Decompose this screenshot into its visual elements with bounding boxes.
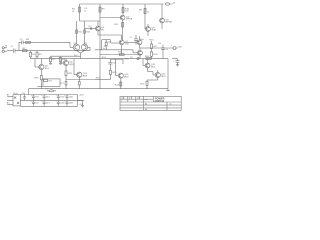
- fuse F2: [47, 90, 56, 92]
- svg-text:2SC: 2SC: [125, 43, 130, 45]
- svg-text:4m7: 4m7: [46, 96, 50, 98]
- capacitor C12: [32, 95, 35, 101]
- resistor R7: [50, 56, 52, 63]
- wire psu zero rail: [20, 99, 84, 101]
- junction terminal: [137, 58, 139, 60]
- resistor R1 shunt: [30, 51, 32, 59]
- wire Q16 collector: [157, 70, 159, 72]
- svg-text:file: file: [145, 109, 147, 111]
- wire Q6 collector: [40, 59, 42, 65]
- transistor Q7 VAS: [119, 40, 124, 45]
- label Q4: [126, 16, 133, 20]
- wire output node line: [151, 47, 172, 49]
- wire Q8 emitter: [65, 66, 67, 71]
- diode D2: [90, 27, 92, 29]
- resistor R6: [26, 41, 31, 43]
- label Q15: [151, 64, 156, 68]
- connector input jack upper: [2, 47, 7, 49]
- wire Q14 base feed: [116, 59, 119, 75]
- label Q5: [101, 27, 105, 31]
- title block v line 3: [143, 96, 145, 110]
- wire Q16 emitter: [157, 78, 159, 80]
- wire Q5 emitter: [97, 31, 99, 35]
- svg-text:R17: R17: [153, 46, 158, 48]
- svg-text:+: +: [171, 45, 173, 47]
- label R8: [139, 10, 150, 14]
- capacitor C14: [43, 95, 46, 101]
- title text: [154, 97, 164, 103]
- svg-text:1k: 1k: [147, 12, 150, 14]
- wire Q14 emitter: [120, 78, 122, 89]
- transistor Q14 output: [118, 73, 123, 78]
- capacitor C11 bypass: [172, 59, 180, 65]
- capacitor C16: [57, 95, 60, 101]
- resistor R2: [23, 50, 28, 52]
- wire VAS collector: [121, 35, 123, 40]
- wire Q8 collector: [65, 59, 67, 61]
- wire input line: [7, 50, 13, 52]
- capacitor C6 loop: [102, 40, 111, 50]
- label R5: [84, 8, 105, 13]
- title block v line 4: [152, 96, 154, 102]
- wire psu feed up: [28, 89, 30, 95]
- label C14: [41, 95, 49, 98]
- svg-text:220: 220: [125, 11, 129, 13]
- svg-text:R6: R6: [26, 39, 30, 41]
- ground tail: [49, 62, 52, 65]
- label C16: [56, 95, 65, 98]
- label C13: [31, 101, 39, 104]
- transistor Q9: [146, 27, 151, 32]
- resistor R3 shunt: [36, 51, 38, 59]
- wire Q10t rail drop: [161, 4, 163, 18]
- svg-text:R27: R27: [141, 83, 146, 85]
- ground tail 2: [59, 62, 62, 65]
- wire psu minus rail: [20, 105, 77, 107]
- ground C11: [176, 65, 179, 67]
- capacitor C20 snubber: [23, 95, 26, 101]
- resistor R27: [146, 80, 158, 89]
- wire psu plus rail: [20, 94, 77, 96]
- capacitor C2: [22, 41, 24, 45]
- svg-text:R19: R19: [35, 77, 40, 79]
- wire left box left vertical: [79, 4, 81, 21]
- label Q7: [125, 41, 130, 45]
- wire feedback line: [19, 41, 21, 43]
- wire feedback branch vertical: [18, 42, 20, 50]
- wire feedback bus: [95, 50, 138, 53]
- svg-text:BD9: BD9: [161, 76, 166, 78]
- svg-text:100n: 100n: [69, 96, 73, 98]
- capacitor C7: [134, 35, 138, 45]
- resistor R19: [40, 75, 42, 88]
- capacitor C18: [66, 95, 69, 101]
- svg-text:R12: R12: [78, 32, 83, 34]
- label C19: [64, 101, 73, 104]
- label C9: [158, 43, 169, 51]
- transistor Q4: [120, 15, 125, 20]
- title block v line 1: [127, 96, 129, 102]
- svg-text:BD9: BD9: [124, 76, 129, 78]
- svg-text:R23: R23: [115, 84, 120, 86]
- transistor Q16 output: [155, 72, 160, 77]
- svg-text:F2: F2: [46, 89, 48, 91]
- transistor Q12 driver: [138, 50, 143, 55]
- svg-text:100n: 100n: [69, 102, 73, 104]
- wire Q16 base feed: [148, 72, 156, 76]
- title block h line 2: [120, 101, 181, 103]
- wire Q4 emitter chain: [122, 20, 124, 40]
- bridge rectifier D5: [13, 95, 20, 106]
- svg-text:4m7: 4m7: [35, 96, 39, 98]
- wire bottom negative rail: [29, 88, 168, 90]
- transistor Q5: [96, 26, 101, 31]
- fuse F1 terminal: [165, 3, 171, 5]
- title block cell ticks: [124, 96, 140, 99]
- wire left box bottom: [80, 20, 101, 22]
- wire VAS top link: [98, 34, 122, 36]
- resistor R21 emitter drop: [65, 80, 67, 89]
- svg-text:RL1: RL1: [49, 80, 54, 82]
- svg-text:C9: C9: [158, 43, 162, 45]
- svg-text:MPSA: MPSA: [126, 18, 133, 21]
- svg-text:1k: 1k: [72, 11, 75, 13]
- resistor R22b emitter drop: [78, 80, 80, 89]
- svg-text:C20: C20: [22, 93, 25, 95]
- wire LTP tail: [77, 51, 85, 59]
- label Q9: [152, 27, 157, 31]
- wire collector feed Q4: [122, 4, 124, 15]
- wire Q15 links: [143, 59, 148, 72]
- wire x100 lower vertical: [99, 60, 101, 89]
- label Q13: [83, 73, 88, 77]
- title block v line 5: [166, 102, 168, 110]
- resistor R9: [60, 56, 62, 63]
- svg-text:4m7: 4m7: [35, 102, 39, 104]
- label Q14: [124, 74, 129, 78]
- svg-text:AC: AC: [7, 102, 10, 105]
- ground rail end: [166, 89, 169, 92]
- svg-text:C1: C1: [11, 46, 15, 48]
- transistor Q15: [145, 63, 150, 68]
- label Q6: [45, 66, 50, 70]
- label C18: [64, 95, 73, 98]
- svg-text:R11: R11: [115, 24, 120, 26]
- label R16: [150, 39, 159, 48]
- capacitor C17: [57, 100, 60, 106]
- svg-text:C8: C8: [113, 63, 117, 65]
- wire loop right vertical: [122, 59, 124, 64]
- resistor R23: [120, 82, 122, 86]
- capacitor C13: [32, 100, 35, 106]
- resistor R16: [150, 41, 152, 49]
- resistor R26 series: [146, 58, 151, 60]
- connector AC input 3: [7, 104, 13, 106]
- wire Q5 collector: [97, 21, 99, 26]
- resistor R11: [122, 23, 124, 28]
- svg-text:sch: sch: [145, 99, 148, 101]
- svg-text:22: 22: [130, 57, 133, 59]
- svg-text:R8: R8: [139, 10, 143, 12]
- transistor Q11 driver: [137, 40, 142, 45]
- transistor Q1: [73, 44, 79, 50]
- label psu outputs: [79, 94, 84, 106]
- svg-text:R24: R24: [113, 72, 118, 74]
- label R25: [125, 57, 134, 60]
- resistor R24: [95, 70, 111, 79]
- connector AC input 1: [7, 95, 13, 97]
- wire Q12 links: [139, 48, 141, 59]
- svg-text:R1: R1: [32, 54, 36, 56]
- connector input jack lower: [2, 50, 7, 52]
- wire low bus: [66, 79, 95, 81]
- connector output: [173, 47, 178, 50]
- capacitor C15: [43, 100, 46, 106]
- capacitor C19: [66, 100, 69, 106]
- svg-text:C7: C7: [130, 37, 134, 39]
- wire right vertical: [167, 59, 169, 89]
- wire VAS bottom line: [100, 54, 142, 56]
- label output: [171, 45, 184, 48]
- wire Q13 base feed: [74, 59, 77, 75]
- wire Q2 collector up: [84, 21, 86, 44]
- resistor R12: [76, 30, 78, 33]
- wire Q6 emitter: [40, 70, 42, 76]
- wire Q9 base link: [144, 27, 146, 29]
- svg-text:BD6: BD6: [151, 66, 156, 68]
- label Q16: [161, 74, 166, 78]
- svg-text:IN: IN: [5, 46, 8, 48]
- svg-text:R3: R3: [39, 54, 43, 56]
- svg-text:n1: n1: [166, 49, 169, 51]
- resistor R8: [144, 9, 146, 14]
- wire Q11 base: [124, 41, 137, 43]
- svg-text:1/1: 1/1: [169, 103, 172, 105]
- wire R8 rail drop: [144, 4, 146, 27]
- svg-text:AC: AC: [7, 93, 10, 96]
- svg-text:+42: +42: [172, 3, 176, 5]
- transistor Q2: [81, 44, 87, 50]
- label C7: [130, 37, 145, 41]
- transistor Q8: [63, 60, 68, 65]
- wire VAS base: [111, 42, 120, 44]
- title block small text: [121, 97, 172, 111]
- svg-text:+42V: +42V: [79, 94, 84, 96]
- svg-text:R20: R20: [68, 73, 73, 75]
- wire feedback line 2: [23, 42, 73, 47]
- wire Q6 base stub: [35, 66, 39, 68]
- svg-text:BD9: BD9: [83, 76, 88, 78]
- svg-text:a: a: [121, 100, 122, 102]
- title block h line 4: [120, 107, 181, 109]
- svg-text:BD1: BD1: [45, 68, 50, 70]
- wire top positive rail: [80, 3, 164, 5]
- label C12: [31, 95, 39, 98]
- label AC: [7, 93, 10, 104]
- label C15: [41, 101, 49, 104]
- svg-text:MJE: MJE: [152, 30, 157, 32]
- wire x100 long vertical: [99, 21, 101, 60]
- svg-text:R16: R16: [150, 39, 155, 41]
- svg-text:R18: R18: [153, 54, 158, 56]
- svg-text:BC: BC: [101, 29, 104, 31]
- wire mirror bus: [85, 28, 96, 30]
- wire VAS emitter: [121, 45, 123, 55]
- svg-text:A4: A4: [145, 102, 147, 105]
- title block h line 1: [120, 98, 153, 100]
- resistor R5: [99, 7, 101, 12]
- wire Q9 emitter: [147, 31, 149, 36]
- wire Q9 collector: [147, 24, 149, 27]
- connector AC input 2: [7, 99, 13, 101]
- wire input line 2: [15, 47, 90, 50]
- svg-text:R7: R7: [52, 59, 56, 61]
- capacitor C9: [161, 45, 165, 59]
- ground psu: [78, 100, 85, 107]
- wire Q11 emitter-collector: [139, 36, 141, 48]
- svg-text:n1: n1: [84, 11, 87, 13]
- wire driver bridge: [140, 47, 152, 49]
- title block frame: [120, 96, 181, 110]
- wire Q1 collector up: [76, 21, 78, 44]
- wire Q4 base: [100, 17, 121, 19]
- resistor R18: [150, 49, 152, 59]
- wire tail sub line: [51, 55, 81, 57]
- wire bias tap Q8: [61, 59, 63, 63]
- transistor Q6: [39, 64, 44, 69]
- svg-text:OUT: OUT: [178, 47, 183, 49]
- transistor Q3: [160, 18, 165, 23]
- svg-text:R21: R21: [60, 83, 65, 85]
- resistor R20: [65, 71, 67, 80]
- label C6: [103, 41, 112, 50]
- label Q3: [166, 19, 173, 23]
- svg-text:R5: R5: [102, 9, 106, 11]
- wire left box right vertical: [99, 4, 101, 21]
- wire Q3 emitter: [161, 23, 163, 29]
- svg-text:MPSA: MPSA: [166, 21, 173, 24]
- svg-text:rev: rev: [121, 98, 124, 100]
- label C17: [56, 101, 65, 104]
- wire psu right vertical: [77, 95, 79, 107]
- relay RL1: [37, 79, 60, 86]
- label Q8: [69, 62, 74, 66]
- resistor R15: [120, 54, 125, 56]
- capacitor C1: [13, 49, 15, 53]
- label Q1 Q2: [74, 43, 88, 45]
- title block v line 2: [135, 96, 137, 102]
- svg-text:BD1: BD1: [69, 64, 74, 66]
- svg-text:4m7: 4m7: [46, 102, 50, 104]
- svg-text:R13: R13: [86, 32, 91, 34]
- wire Q13 emitter: [78, 77, 80, 79]
- capacitor C8: [108, 59, 112, 70]
- label R4: [72, 9, 76, 13]
- label R10: [125, 8, 130, 12]
- svg-text:+: +: [173, 61, 175, 63]
- resistor R13: [84, 30, 86, 33]
- svg-text:AMP100: AMP100: [154, 100, 164, 103]
- wire mid rail: [31, 58, 169, 60]
- title block h line 3: [120, 104, 181, 106]
- wire vi loop top: [110, 58, 123, 60]
- resistor R4: [79, 7, 81, 12]
- wire bias tap Q6: [34, 59, 36, 67]
- resistor R10: [122, 8, 124, 13]
- transistor Q13 output: [77, 72, 82, 77]
